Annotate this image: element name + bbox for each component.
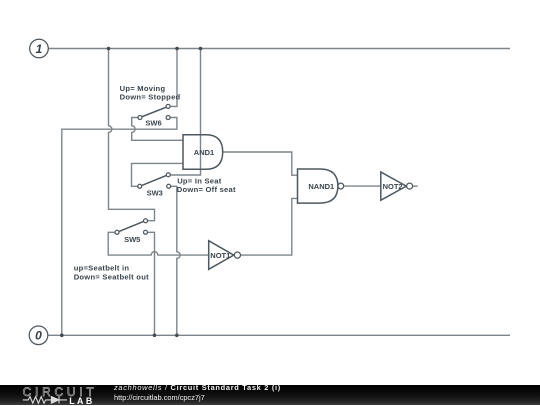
wire: SW3 bottom throw to rail 0 (with hop over y=255 wire) (171, 186, 181, 335)
junction on rail 1 at x=200.5 (199, 47, 203, 51)
wire: AND1 output to NAND1 input A (223, 152, 298, 175)
svg-text:Down= Stopped: Down= Stopped (120, 93, 181, 102)
NOT gate NOT1 (209, 241, 241, 270)
svg-text:Down= Off seat: Down= Off seat (177, 185, 236, 194)
node 1 rail (top) (48, 48, 510, 50)
footer bar (0, 385, 540, 405)
svg-text:SW6: SW6 (145, 118, 161, 127)
junction on rail 0 at x=61.8 (60, 334, 64, 338)
wire: SW6 common to AND1 input A (with hop) (132, 118, 183, 141)
svg-text:up=Seatbelt in: up=Seatbelt in (74, 264, 130, 273)
switch SW6 (138, 104, 170, 127)
node 0 terminal (29, 326, 48, 345)
svg-text:0: 0 (35, 329, 42, 343)
wire: SW6 bottom throw to rail 0 (62, 118, 177, 336)
svg-text:Down= Seatbelt out: Down= Seatbelt out (74, 272, 149, 281)
switch SW3 (138, 173, 171, 198)
svg-text:NAND1: NAND1 (308, 182, 334, 191)
wire: rail1 to SW6 top throw (170, 49, 177, 107)
svg-text:AND1: AND1 (194, 148, 214, 157)
wire: rail1 to SW5 top throw (with hop over y=129 wire) (109, 49, 155, 221)
junction on rail 1 at x=108.5 (107, 47, 111, 51)
svg-text:NOT2: NOT2 (383, 182, 403, 191)
svg-text:SW5: SW5 (124, 235, 140, 244)
annotation: SW5 legend (74, 264, 149, 282)
svg-text:1: 1 (36, 42, 43, 56)
switch SW5 (115, 219, 148, 244)
node 1 terminal (30, 39, 49, 58)
footer credit text (114, 383, 281, 404)
annotation: SW6 legend (120, 84, 181, 102)
LAB wordmark (69, 396, 95, 406)
junction on rail 0 at x=154.5 (153, 334, 157, 338)
svg-text:SW3: SW3 (147, 189, 163, 198)
wire: NOT2 output stub (413, 185, 418, 187)
wire: rail1 to SW3 top throw (passes through AND1) (170, 49, 200, 176)
wire: NAND1 output to NOT2 input (344, 185, 381, 187)
annotation: SW3 legend (177, 176, 236, 194)
CircuitLab logo resistor-diode glyph (20, 385, 100, 405)
wire: SW3 common to AND1 input B (132, 163, 184, 186)
node 0 rail (bottom) (48, 334, 510, 336)
NAND gate NAND1 (298, 169, 344, 203)
CircuitLab logo wordmark (23, 385, 98, 399)
junction on rail 1 at x=177 (175, 47, 179, 51)
wire: SW5 bottom throw to rail 0 (147, 232, 154, 335)
NOT gate NOT2 (381, 172, 413, 200)
wire: NOT1 output to NAND1 input B (241, 198, 298, 255)
junction on rail 0 at x=176.8 (175, 334, 179, 338)
AND gate AND1 (183, 135, 223, 170)
svg-text:NOT1: NOT1 (210, 251, 230, 260)
wire: SW5 common to NOT1 input (hops over x=154.5 wire) (108, 232, 209, 255)
